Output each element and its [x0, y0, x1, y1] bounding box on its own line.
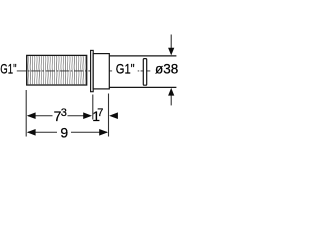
- svg-text:3: 3: [61, 107, 67, 119]
- svg-text:7: 7: [97, 107, 103, 119]
- svg-text:G1": G1": [116, 61, 135, 77]
- svg-text:9: 9: [60, 124, 68, 140]
- svg-text:G1": G1": [0, 61, 16, 77]
- svg-text:ø38: ø38: [155, 61, 178, 76]
